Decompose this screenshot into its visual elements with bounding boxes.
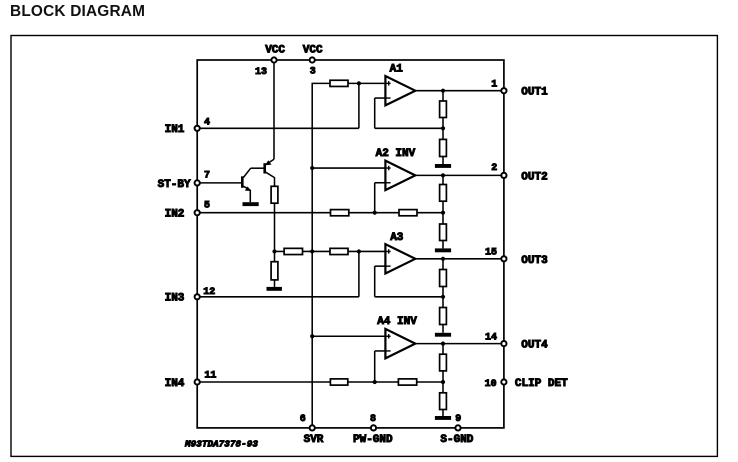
- wire A2 - input vertical: [374, 183, 376, 213]
- svg-text:SVR: SVR: [304, 434, 324, 446]
- op-amp A2: [385, 161, 415, 190]
- wire R15 to output rail: [417, 381, 443, 383]
- resistor R15 (A4 feedback): [398, 379, 416, 385]
- wire A2 output to pin 2: [415, 174, 504, 176]
- transistor Q1 (NPN, standby switch): [242, 168, 251, 191]
- svg-text:14: 14: [485, 332, 497, 343]
- wire A3 feedback horizontal: [375, 296, 443, 298]
- svg-text:1: 1: [491, 79, 497, 90]
- wire R14 to summing node: [348, 381, 399, 383]
- wire bias node down to R9: [274, 251, 276, 261]
- svg-text:11: 11: [204, 370, 216, 381]
- wire IN2 pin5 line: [197, 212, 330, 214]
- wire VCC pin13 down to Q2 emitter: [273, 60, 275, 159]
- resistor divider upper (stage 3): [440, 270, 447, 287]
- svg-text:6: 6: [300, 414, 306, 425]
- wire R1 to A1 + input: [348, 82, 385, 84]
- pin CLIP DET pin 10: [501, 379, 506, 384]
- wire OUT1 divider rail: [442, 91, 444, 164]
- wire OUT2 divider rail: [442, 175, 444, 248]
- svg-text:VCC: VCC: [303, 45, 323, 57]
- wire R10 to rail: [303, 250, 331, 252]
- wire A2 - input stub: [375, 182, 386, 184]
- svg-text:12: 12: [203, 287, 215, 298]
- pin SVR pin 6: [310, 425, 315, 430]
- pin IN4 pin 11: [195, 379, 200, 384]
- transistor Q2 (PNP, emitter to VCC): [265, 159, 275, 177]
- pin S-GND pin 9: [455, 425, 460, 430]
- wire A1 output to pin 1: [415, 90, 504, 92]
- svg-text:IN1: IN1: [165, 124, 185, 136]
- svg-text:OUT2: OUT2: [521, 171, 547, 183]
- wire IN3 coupling vertical: [358, 251, 360, 296]
- node OUT3 rail junction: [441, 257, 445, 261]
- pin PW-GND pin 8: [371, 425, 376, 430]
- ground at Q1 emitter: [243, 202, 259, 206]
- wire R11 to A3 + input: [348, 250, 385, 252]
- wire bias node to R10: [275, 250, 285, 252]
- node A4 summing junction: [373, 380, 377, 384]
- node OUT2 rail junction: [441, 173, 445, 177]
- resistor divider lower (stage 1): [440, 139, 447, 156]
- wire rail corner to R1: [312, 82, 331, 84]
- wire SVR rail to A2 + input: [312, 167, 385, 169]
- node bias junction: [272, 249, 276, 253]
- wire IN3 pin12 line: [197, 296, 359, 298]
- wire A4 - input vertical: [374, 351, 376, 382]
- svg-text:13: 13: [255, 67, 267, 78]
- wire Q1 collector to Q2 base: [251, 167, 265, 169]
- wire ST-BY pin7 to Q1 base: [197, 182, 242, 184]
- wire A3 - input stub: [375, 265, 386, 267]
- wire OUT3 divider rail: [442, 259, 444, 333]
- ground divider (stage 4): [435, 416, 451, 420]
- svg-text:M93TDA7378-93: M93TDA7378-93: [184, 439, 258, 450]
- ground divider (stage 1): [435, 164, 451, 168]
- node A1 + input junction: [357, 81, 361, 85]
- svg-text:9: 9: [455, 414, 461, 425]
- resistor R1 (A1 + input bias): [330, 80, 348, 86]
- op-amp A1: [385, 76, 415, 105]
- svg-text:5: 5: [204, 200, 210, 211]
- wire R5 to output rail: [417, 212, 443, 214]
- wire IN1 coupling vertical: [358, 83, 360, 128]
- wire A4 - input stub: [375, 350, 386, 352]
- svg-text:IN3: IN3: [165, 293, 185, 305]
- svg-text:CLIP DET: CLIP DET: [515, 378, 568, 390]
- svg-text:PW-GND: PW-GND: [353, 434, 393, 446]
- node A3 + input junction: [357, 249, 361, 253]
- pin OUT1 pin 1: [501, 88, 506, 93]
- svg-text:VCC: VCC: [265, 45, 285, 57]
- resistor divider upper (stage 1): [440, 101, 447, 118]
- pin IN3 pin 12: [195, 294, 200, 299]
- op-amp A4: [385, 329, 415, 358]
- node A2 summing junction: [373, 211, 377, 215]
- svg-text:OUT3: OUT3: [521, 255, 548, 267]
- svg-text:S-GND: S-GND: [440, 434, 473, 446]
- svg-text:ST-BY: ST-BY: [158, 179, 191, 191]
- resistor divider lower (stage 2): [440, 224, 447, 241]
- svg-text:3: 3: [310, 66, 316, 77]
- pin VCC pin 3: [310, 57, 315, 62]
- wire R9 to ground: [274, 280, 276, 287]
- resistor R9 (bias to ground): [271, 262, 278, 280]
- resistor R8 (Q2 collector): [271, 186, 278, 203]
- resistor divider upper (stage 2): [440, 185, 447, 202]
- wire SVR rail vertical (pin 6 to A1 bias corner): [311, 83, 313, 428]
- svg-text:4: 4: [204, 117, 210, 128]
- node divider tap (stage 4): [441, 380, 445, 384]
- resistor R5 (A2 feedback): [399, 210, 417, 216]
- wire IN4 pin11 line: [197, 381, 330, 383]
- svg-text:A3: A3: [390, 232, 404, 244]
- node divider tap (stage 3): [441, 295, 445, 299]
- svg-text:8: 8: [370, 414, 376, 425]
- wire A3 feedback vertical: [374, 266, 376, 297]
- node OUT1 rail junction: [441, 89, 445, 93]
- svg-text:7: 7: [204, 170, 210, 181]
- pin IN2 pin 5: [195, 210, 200, 215]
- wire A3 output to pin 15: [415, 258, 504, 260]
- svg-text:15: 15: [485, 248, 497, 259]
- wire A1 feedback horizontal: [375, 127, 443, 129]
- wire A1 - input stub: [375, 97, 386, 99]
- pin VCC pin 13: [271, 57, 276, 62]
- wire R4 to summing node: [349, 212, 399, 214]
- wire SVR rail to A4 + input: [312, 335, 385, 337]
- svg-text:2: 2: [491, 163, 497, 174]
- wire A4 output to pin 14: [415, 343, 504, 345]
- ground at R9: [267, 287, 282, 291]
- op-amp A3: [385, 244, 415, 273]
- svg-text:OUT1: OUT1: [521, 87, 548, 99]
- pin OUT2 pin 2: [501, 173, 506, 178]
- pin ST-BY pin 7: [195, 180, 200, 185]
- node SVR rail to A4 + input: [310, 334, 314, 338]
- node divider tap (stage 1): [441, 126, 445, 130]
- svg-text:A1: A1: [390, 64, 404, 76]
- node SVR rail to A2 + input: [310, 166, 314, 170]
- IC body box: [197, 60, 504, 428]
- svg-text:10: 10: [485, 379, 497, 390]
- wire Q2 collector to resistor R8: [274, 177, 276, 186]
- svg-text:A2 INV: A2 INV: [376, 148, 416, 160]
- pin OUT3 pin 15: [501, 256, 506, 261]
- resistor R10 (bias chain): [284, 248, 302, 254]
- svg-text:IN4: IN4: [165, 378, 185, 390]
- pin IN1 pin 4: [195, 126, 200, 131]
- resistor divider upper (stage 4): [440, 354, 447, 371]
- resistor R14 (IN4 series): [330, 379, 347, 385]
- svg-text:A4 INV: A4 INV: [377, 316, 417, 328]
- wire OUT4 divider rail: [442, 344, 444, 416]
- resistor R11 (A3 + input bias): [330, 248, 348, 254]
- node OUT4 rail junction: [441, 342, 445, 346]
- wire A1 feedback vertical: [374, 98, 376, 128]
- ground divider (stage 3): [435, 333, 451, 337]
- resistor divider lower (stage 3): [440, 308, 447, 325]
- pin OUT4 pin 14: [501, 341, 506, 346]
- resistor R4 (IN2 series): [331, 210, 349, 216]
- wire R8 to bias node: [274, 203, 276, 251]
- svg-text:IN2: IN2: [165, 209, 185, 221]
- svg-text:OUT4: OUT4: [521, 340, 548, 352]
- ground divider (stage 2): [435, 248, 451, 252]
- wire IN1 pin4 line: [197, 127, 359, 129]
- node divider tap (stage 2): [441, 211, 445, 215]
- wire Q1 emitter down: [249, 190, 251, 202]
- resistor divider lower (stage 4): [440, 393, 447, 410]
- node SVR rail bias chain: [310, 249, 314, 253]
